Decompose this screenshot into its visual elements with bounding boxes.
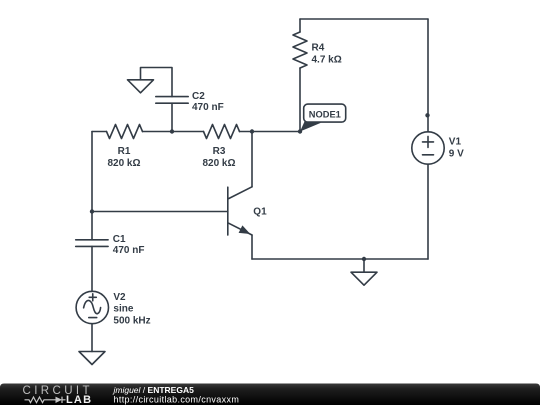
resistor R1 [107,125,143,139]
svg-text:820 kΩ: 820 kΩ [202,158,235,169]
svg-text:V2: V2 [113,292,126,303]
wire C1 to V2 [91,246,93,291]
wire V1 upper [427,19,429,132]
capacitor C2 [156,97,188,104]
wire R4 top lead [299,19,301,32]
resistor R4 [293,32,307,68]
svg-text:C2: C2 [192,91,205,102]
svg-text:NODE1: NODE1 [309,109,341,119]
wire collector stub [251,132,253,187]
svg-text:4.7 kΩ: 4.7 kΩ [312,54,342,65]
svg-text:R4: R4 [312,43,325,54]
label V1 9 V [449,137,464,160]
capacitor C1 [76,240,108,247]
node NODE1 callout [300,104,346,131]
wire left vertical [91,132,93,240]
label R4 4.7 kΩ [312,43,342,66]
svg-text:9 V: 9 V [449,148,464,159]
wire top rail [300,18,428,20]
footer bar [0,384,540,405]
wire V2 to ground [91,324,93,352]
label V2 sine 500 kHz [113,292,150,327]
svg-text:R1: R1 [118,146,131,157]
junction node R3/collector [250,129,254,133]
label C1 470 nF [113,234,145,256]
junction node R4/NODE1 [298,129,302,133]
label R1 820 kΩ [107,146,140,169]
junction node V1 [425,113,429,117]
resistor R3 [204,125,240,139]
wire V1 lower [427,164,429,259]
label C2 470 nF [192,91,224,113]
logo resistor-diode [25,397,66,403]
wire R3 to R4 node [240,131,301,133]
ground C2 [128,80,154,93]
wire base [92,211,228,213]
svg-text:R3: R3 [213,146,226,157]
wire bottom rail [252,258,428,260]
voltage source V1 [412,132,444,164]
svg-text:470 nF: 470 nF [113,245,145,256]
svg-text:LAB: LAB [66,394,92,405]
junction node bottom ground [362,257,366,261]
wire ground stub bottom [363,259,365,272]
wire R4 bottom lead [299,68,301,132]
svg-text:http://circuitlab.com/cnvaxxm: http://circuitlab.com/cnvaxxm [114,394,240,404]
svg-text:820 kΩ: 820 kΩ [107,158,140,169]
svg-text:C1: C1 [113,234,126,245]
junction node R1/R3/C2 [170,129,174,133]
voltage source V2 [76,291,108,323]
transistor Q1 [228,187,252,235]
ground bottom [351,272,377,285]
wire main horizontal left [92,131,107,133]
wire C2 lower lead [171,103,173,131]
wire C2 to ground [141,68,173,97]
wire R1 to C2 node [143,131,204,133]
svg-text:470 nF: 470 nF [192,102,224,113]
label R3 820 kΩ [202,146,235,169]
wire emitter stub [251,235,253,259]
junction node base [90,209,94,213]
svg-text:sine: sine [113,304,133,315]
svg-text:Q1: Q1 [253,207,267,218]
svg-text:V1: V1 [449,137,462,148]
ground V2 [79,352,105,365]
svg-text:jmiguel / ENTREGA5: jmiguel / ENTREGA5 [113,385,195,395]
svg-text:500 kHz: 500 kHz [113,316,150,327]
